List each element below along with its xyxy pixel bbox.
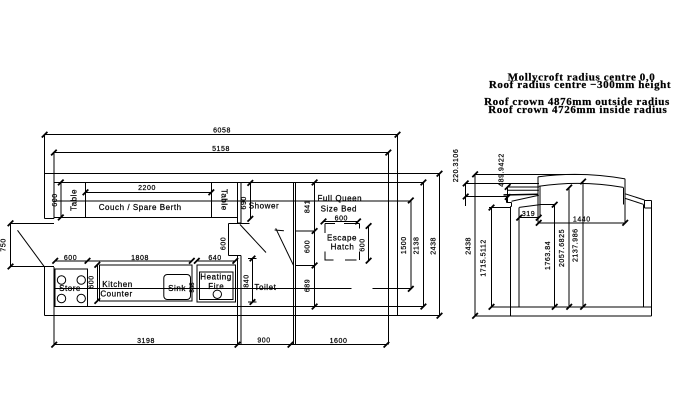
svg-text:2200: 2200: [138, 185, 156, 192]
porch door swing: [18, 230, 45, 266]
dim 1440 line: [539, 222, 626, 224]
wire left outer wall lower: [44, 267, 46, 316]
porch left edge / 750 dim line: [10, 223, 12, 266]
corridor door dash: [275, 229, 284, 232]
svg-text:840: 840: [244, 274, 251, 287]
dim 690 line: [249, 183, 251, 219]
svg-text:Heating: Heating: [200, 272, 231, 281]
body left wall inner: [518, 207, 520, 306]
ext 489 top: [508, 186, 539, 188]
svg-text:750: 750: [0, 238, 7, 251]
svg-text:Table: Table: [70, 189, 79, 211]
dim 2138 line: [422, 182, 424, 306]
left eave mid line: [508, 189, 539, 191]
table1 right edge: [85, 182, 87, 217]
wire left inner wall lower: [53, 267, 55, 345]
dim 1763.84 line: [554, 205, 556, 307]
corridor left wall cap: [238, 222, 242, 224]
svg-text:640: 640: [208, 255, 221, 262]
bed dims stack line: [314, 182, 316, 306]
toilet dim bottom ext: [248, 301, 257, 303]
kitchen dims line 600/1808/640: [55, 260, 87, 262]
svg-text:Table: Table: [219, 189, 228, 211]
dimension 5158 line: [54, 152, 388, 154]
svg-text:Couch / Spare Berth: Couch / Spare Berth: [99, 203, 182, 212]
mollycroft right wall inner: [622, 187, 624, 204]
svg-text:Shower: Shower: [249, 202, 279, 211]
ext ceiling to 1763: [540, 204, 555, 206]
svg-text:489.9422: 489.9422: [498, 153, 505, 187]
wire left inner wall upper: [53, 153, 55, 219]
body right wall outer: [650, 201, 652, 316]
svg-text:3198: 3198: [137, 338, 155, 345]
dim 489.9422 line: [507, 187, 509, 202]
svg-text:1440: 1440: [573, 217, 591, 224]
toilet dim top ext: [248, 258, 257, 260]
right gutter bottom: [645, 207, 652, 209]
mollycroft outer roof arc: [538, 174, 625, 179]
heating fire inner box: [199, 272, 233, 300]
store box: [55, 269, 87, 307]
right outer wall: [397, 135, 399, 316]
plan inner top wall: [54, 181, 424, 183]
corridor door swing B: [276, 228, 294, 265]
left lower roof outer thick: [504, 193, 539, 196]
centreline top band: [54, 200, 411, 202]
centreline bottom band / bed foot: [54, 288, 351, 290]
right lower roof outer: [625, 194, 644, 200]
mollycroft right wall outer: [624, 179, 626, 223]
corridor left wall lower cap: [238, 255, 242, 257]
svg-text:1808: 1808: [131, 255, 149, 262]
right inner wall: [387, 153, 389, 345]
svg-text:2438: 2438: [431, 237, 438, 255]
counter box: [100, 265, 192, 301]
svg-text:Roof crown 4726mm inside radiu: Roof crown 4726mm inside radius: [488, 104, 667, 116]
svg-text:600: 600: [89, 275, 96, 288]
heating fire outer box: [197, 265, 236, 302]
left wall top cap: [510, 206, 513, 208]
ext A outer crown: [474, 173, 582, 175]
ext C eave: [466, 196, 508, 198]
right gutter top: [645, 200, 652, 202]
dim 1715.5112 line: [491, 208, 493, 307]
svg-text:1500: 1500: [401, 236, 408, 254]
couch right edge: [210, 182, 212, 217]
dim 1500 line: [410, 200, 412, 288]
dim 840 toilet line: [252, 259, 254, 303]
dim 2057.6825 line: [568, 188, 570, 307]
svg-text:Counter: Counter: [100, 289, 132, 298]
sink bowl: [164, 275, 191, 300]
svg-text:900: 900: [257, 338, 270, 345]
svg-text:689: 689: [305, 279, 312, 292]
left gutter bottom: [506, 201, 511, 203]
corridor left wall a lower: [237, 256, 239, 345]
corridor left wall a upper: [237, 182, 239, 222]
bottom dim line: [54, 344, 386, 346]
svg-text:600: 600: [305, 240, 312, 253]
svg-text:5158: 5158: [212, 146, 230, 153]
svg-text:841: 841: [304, 200, 311, 213]
ticks section: [463, 181, 469, 187]
right lower roof inner: [625, 198, 643, 204]
base line: [475, 315, 651, 317]
escape hatch dashed square: [324, 224, 359, 260]
right gutter outer face: [644, 201, 646, 208]
left lower roof inner: [512, 195, 539, 201]
svg-text:600: 600: [220, 237, 227, 250]
svg-text:Size Bed: Size Bed: [321, 204, 357, 213]
store burner circles: [57, 276, 65, 284]
svg-text:Store: Store: [59, 284, 81, 293]
dim 220.3106 line: [465, 183, 467, 206]
svg-text:600: 600: [335, 216, 348, 223]
svg-text:600: 600: [359, 238, 366, 251]
svg-text:2438: 2438: [465, 237, 472, 255]
shower bump top: [228, 223, 249, 225]
plan outer top wall: [45, 173, 440, 175]
dimension 6058 line: [45, 134, 398, 136]
shower bump bottom: [228, 255, 241, 257]
svg-text:319: 319: [522, 211, 535, 218]
svg-text:Roof radius centre −300mm heig: Roof radius centre −300mm height: [489, 79, 671, 91]
couch front edge: [54, 216, 238, 218]
counter depth dim 600 line: [96, 265, 98, 301]
wall cap bottom of door: [45, 266, 54, 268]
left gutter inner face: [511, 202, 513, 206]
svg-text:585: 585: [190, 282, 196, 293]
body left wall outer: [510, 207, 512, 316]
corridor right wall b: [295, 182, 297, 344]
porch top edge: [11, 222, 54, 224]
corridor right wall a: [293, 182, 295, 344]
corridor left wall b lower: [240, 256, 242, 345]
bed dim ext 600/689: [296, 264, 315, 266]
svg-text:690: 690: [241, 196, 248, 209]
porch bottom edge: [11, 266, 54, 268]
mollycroft left wall outer: [537, 177, 539, 223]
svg-text:1600: 1600: [330, 338, 348, 345]
fire flue circle: [213, 290, 221, 298]
floor line: [492, 306, 652, 308]
svg-text:Fire: Fire: [208, 282, 224, 291]
wall cap top of door: [45, 217, 54, 219]
escape hatch 600 top dim: [324, 220, 359, 222]
corridor left wall b upper: [240, 182, 242, 222]
svg-text:600: 600: [64, 255, 77, 262]
shower bump left edge: [227, 224, 229, 256]
svg-text:Sink: Sink: [168, 284, 186, 293]
dim 2438 section line: [474, 174, 476, 315]
ext B inner crown: [466, 182, 540, 184]
svg-text:Toilet: Toilet: [254, 283, 276, 292]
dim 2137.986 line: [582, 182, 584, 307]
svg-text:220.3106: 220.3106: [453, 149, 460, 183]
svg-text:1715.5112: 1715.5112: [480, 239, 487, 277]
wire left outer wall upper: [44, 135, 46, 219]
corridor door swing A: [240, 225, 266, 253]
dim 2200 line: [86, 191, 212, 193]
ext 1715 top: [489, 207, 511, 209]
left gutter outer face: [505, 197, 507, 202]
svg-text:2138: 2138: [414, 237, 421, 255]
escape hatch 600 right dim: [368, 226, 370, 261]
plan inner bottom wall: [54, 306, 424, 308]
plan outer bottom wall: [45, 315, 440, 317]
dim 319 line: [519, 217, 539, 219]
ticks plan dims: [42, 132, 48, 138]
svg-text:1763.84: 1763.84: [545, 241, 552, 270]
svg-text:600: 600: [52, 193, 59, 206]
mollycroft left wall inner: [539, 186, 541, 217]
svg-text:Kitchen: Kitchen: [102, 280, 133, 289]
bed dim ext 841/600: [296, 230, 315, 232]
svg-text:Full Queen: Full Queen: [317, 194, 362, 203]
svg-text:2057.6825: 2057.6825: [559, 229, 566, 267]
svg-text:Escape: Escape: [327, 234, 357, 243]
body right wall inner: [642, 204, 644, 306]
svg-text:Hatch: Hatch: [331, 243, 355, 252]
svg-text:6058: 6058: [213, 128, 231, 135]
dim 2438 line: [439, 174, 441, 316]
mollycroft inner roof arc: [539, 183, 623, 187]
dim 600 table line: [60, 182, 62, 217]
svg-text:2137.986: 2137.986: [573, 228, 580, 262]
left ceiling line: [519, 205, 540, 208]
